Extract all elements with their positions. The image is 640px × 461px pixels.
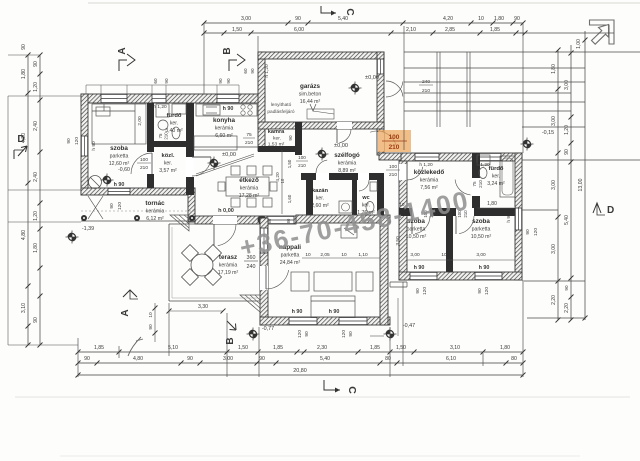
door label szoba1 100/210 <box>137 157 151 171</box>
svg-text:1,50: 1,50 <box>396 345 406 351</box>
svg-text:garázs: garázs <box>300 83 320 90</box>
wall: right wing north <box>401 153 522 161</box>
svg-text:h 1,20: h 1,20 <box>476 162 490 168</box>
wc fixtures <box>366 182 377 213</box>
svg-text:210: 210 <box>298 163 306 168</box>
svg-text:90: 90 <box>164 78 169 84</box>
svg-text:h 90: h 90 <box>329 309 340 315</box>
interior dims wing rooms <box>407 252 515 260</box>
svg-text:5,40: 5,40 <box>338 16 348 22</box>
svg-text:D: D <box>607 205 614 216</box>
wall: right wing east <box>515 153 522 280</box>
wall: konyha west partition <box>186 103 194 195</box>
svg-text:h 90: h 90 <box>114 182 125 188</box>
window W9 nappali south 2 <box>339 317 367 325</box>
window W10 wing east h90 <box>515 208 522 230</box>
svg-text:24,84 m²: 24,84 m² <box>280 260 301 266</box>
svg-text:60: 60 <box>243 68 248 74</box>
door gap to terasz <box>213 216 237 224</box>
label furdo2 <box>487 166 505 187</box>
svg-text:75: 75 <box>158 133 163 138</box>
svg-text:120: 120 <box>117 202 123 210</box>
konyha-etkezo floor edge <box>194 146 259 148</box>
handwritten correction mark near 4,80 <box>128 337 143 356</box>
svg-text:1,20: 1,20 <box>33 82 39 92</box>
furdo1 door label 75/210 <box>158 132 169 140</box>
svg-text:90: 90 <box>226 78 231 84</box>
wall: szelfogo east with front door <box>377 129 384 155</box>
svg-text:1,00: 1,00 <box>576 39 582 49</box>
svg-text:90: 90 <box>21 44 27 50</box>
svg-text:B: B <box>225 337 236 344</box>
svg-text:90: 90 <box>514 16 520 22</box>
svg-text:D: D <box>17 134 24 145</box>
svg-text:±0,00: ±0,00 <box>334 143 348 149</box>
svg-text:fürdő: fürdő <box>489 166 504 172</box>
svg-text:100: 100 <box>389 164 397 170</box>
door garage-szelfogo <box>337 129 351 143</box>
wall: left wing top (konyha/szoba north wall) <box>81 94 265 103</box>
interior dim etkezo 4,20 <box>275 150 292 214</box>
svg-text:2,30: 2,30 <box>317 345 327 351</box>
label kamra <box>268 129 285 148</box>
svg-text:4,80: 4,80 <box>21 230 27 240</box>
svg-text:120: 120 <box>341 330 347 338</box>
door garage side east <box>386 81 403 97</box>
door terasz from etkezo <box>214 224 236 246</box>
wall: kazan/wc divider <box>352 180 357 216</box>
svg-text:C: C <box>346 386 358 394</box>
wing south small step <box>390 282 407 287</box>
label konyha window h <box>223 106 234 112</box>
svg-text:1,85: 1,85 <box>94 345 104 351</box>
level tornac <box>66 226 95 244</box>
svg-text:ker.: ker. <box>273 136 281 142</box>
svg-text:ker.: ker. <box>316 196 324 202</box>
svg-text:kerámia: kerámia <box>420 178 439 184</box>
svg-text:210: 210 <box>389 144 400 151</box>
svg-text:90: 90 <box>415 288 421 294</box>
door kazan <box>316 160 327 173</box>
svg-text:-1,39: -1,39 <box>82 226 94 232</box>
door label szoba3 100/210 rotated <box>457 210 468 218</box>
svg-text:75: 75 <box>472 181 477 187</box>
svg-text:kerámia: kerámia <box>240 186 259 192</box>
svg-text:h 90: h 90 <box>414 265 425 271</box>
wall: kozlekedo/furdo divider <box>472 153 480 216</box>
svg-text:240: 240 <box>247 264 256 270</box>
wall: nappali north (kazan/wc south) <box>296 215 390 223</box>
svg-text:h 90: h 90 <box>506 213 512 223</box>
wall: etkezo south wall with terrace door <box>195 216 296 224</box>
svg-text:3,10: 3,10 <box>450 345 460 351</box>
svg-text:17,19 m²: 17,19 m² <box>218 270 239 276</box>
svg-text:210: 210 <box>389 172 397 178</box>
svg-text:1,20: 1,20 <box>564 125 570 135</box>
level -0,15 right <box>521 130 555 151</box>
svg-text:2,20: 2,20 <box>551 295 557 305</box>
svg-text:60: 60 <box>153 78 158 84</box>
label szelfogo <box>334 152 360 174</box>
terasz step SE triangle <box>240 295 260 312</box>
svg-text:90: 90 <box>304 331 310 337</box>
section marker D right <box>593 203 614 216</box>
svg-text:210: 210 <box>140 165 148 171</box>
label furdo2 dim <box>400 201 514 208</box>
svg-text:6,60 m²: 6,60 m² <box>215 133 233 139</box>
level etkezo <box>208 152 236 170</box>
wall: connector szelfogo to wing <box>379 153 404 160</box>
wall: garage south <box>258 122 384 129</box>
attic ladder symbol <box>307 104 334 119</box>
svg-text:100: 100 <box>140 157 148 163</box>
svg-text:7,56 m²: 7,56 m² <box>420 185 438 191</box>
right side extension lines <box>404 33 640 318</box>
svg-text:3,00: 3,00 <box>223 356 233 362</box>
svg-text:3,50: 3,50 <box>395 236 401 246</box>
svg-text:3,00: 3,00 <box>564 80 570 90</box>
svg-text:90: 90 <box>477 288 483 294</box>
garage west window dims <box>243 68 255 74</box>
svg-text:3,00: 3,00 <box>551 180 557 190</box>
north arrow symbol top right <box>590 20 615 44</box>
svg-text:1,60: 1,60 <box>287 194 292 203</box>
left extension horizontals <box>8 55 81 345</box>
etkezo table and chairs <box>218 166 277 207</box>
svg-text:3,00: 3,00 <box>551 244 557 254</box>
door kozl-etkezo <box>192 157 211 176</box>
section marker A top <box>117 47 135 71</box>
svg-text:1,80: 1,80 <box>500 345 510 351</box>
window W11 szoba1 south <box>410 272 437 280</box>
terasz dim 3,30 <box>167 304 226 314</box>
svg-text:1,85: 1,85 <box>370 345 380 351</box>
window W2 furdo north 60 <box>152 94 166 103</box>
extension verticals top <box>204 23 523 153</box>
left dimension chain outer <box>21 44 31 347</box>
svg-text:szélfogó: szélfogó <box>334 152 360 159</box>
door label garage side 240/210 <box>419 79 433 94</box>
svg-text:120: 120 <box>484 287 490 295</box>
wall: wc east <box>377 180 384 216</box>
wall: nappali west <box>260 218 268 325</box>
bottom extension verticals <box>78 282 523 377</box>
svg-text:90: 90 <box>84 356 90 362</box>
svg-text:90: 90 <box>288 135 293 141</box>
right dimension chain 2 <box>564 45 574 323</box>
svg-text:120: 120 <box>533 228 539 236</box>
svg-text:1,50: 1,50 <box>287 159 292 168</box>
level terasz B <box>247 326 275 341</box>
wall: kamra east / szelfogo west upper <box>295 122 302 155</box>
svg-text:90: 90 <box>259 356 265 362</box>
svg-text:kerámia: kerámia <box>338 161 357 167</box>
svg-text:1,80: 1,80 <box>487 201 497 207</box>
svg-text:3,24 m²: 3,24 m² <box>487 181 505 187</box>
szoba1 cross mark <box>101 174 114 187</box>
label kazan <box>311 188 329 209</box>
bottom dimension chain 3 total 20,80 <box>76 368 526 378</box>
svg-text:1,85: 1,85 <box>490 27 500 33</box>
svg-text:210: 210 <box>245 140 253 146</box>
dim 3,50 between nappali and wing <box>395 236 401 246</box>
wall: tornac east wall <box>188 188 195 222</box>
svg-text:5,40: 5,40 <box>320 356 330 362</box>
door nappali west <box>266 266 289 289</box>
svg-text:tornác: tornác <box>145 200 165 207</box>
bed in szoba1 <box>92 104 146 144</box>
door label szoba2 100/210 rotated <box>423 210 434 218</box>
window W4 west 90/120 <box>81 136 88 156</box>
label kozl <box>159 153 177 174</box>
svg-text:90: 90 <box>33 61 39 67</box>
svg-text:h 90: h 90 <box>91 141 97 151</box>
svg-text:1,20: 1,20 <box>33 211 39 221</box>
svg-text:75: 75 <box>246 132 252 138</box>
door szoba1 <box>131 153 152 174</box>
window W3 konyha north <box>217 94 239 103</box>
svg-text:lenyitható: lenyitható <box>271 102 292 108</box>
nappali sofa set <box>291 272 373 317</box>
wall: left outer west wall <box>81 94 88 195</box>
label tornac <box>145 200 165 222</box>
wall: kamra south <box>258 146 302 152</box>
svg-text:1,80: 1,80 <box>33 243 39 253</box>
svg-text:fürdő: fürdő <box>167 113 182 119</box>
svg-text:6,00: 6,00 <box>294 27 304 33</box>
svg-text:210: 210 <box>478 180 483 188</box>
door label furdo2 75/210 rotated <box>472 180 483 188</box>
window W13 wing north 1 <box>415 153 439 161</box>
faint scan smudges bottom <box>15 397 630 456</box>
window W5 south of szoba <box>108 188 130 195</box>
section marker B top <box>222 47 245 71</box>
page top scan line <box>88 2 640 4</box>
label garage hatch note <box>267 102 295 115</box>
door furdo wing <box>455 180 470 195</box>
svg-text:közlekedő: közlekedő <box>414 169 445 176</box>
svg-text:120: 120 <box>74 137 80 145</box>
svg-text:210: 210 <box>164 132 169 140</box>
svg-text:90: 90 <box>564 285 569 291</box>
wall: garage east <box>377 52 384 129</box>
kazan boiler <box>339 201 352 213</box>
svg-text:10,50 m²: 10,50 m² <box>471 234 492 240</box>
svg-text:kerámia: kerámia <box>215 126 234 132</box>
level szelfogo <box>316 143 348 161</box>
svg-text:kerámia: kerámia <box>219 263 238 269</box>
svg-text:h 90: h 90 <box>479 265 490 271</box>
level garage <box>349 75 379 95</box>
svg-text:2,40: 2,40 <box>33 121 39 131</box>
svg-text:2,20: 2,20 <box>564 303 570 313</box>
window W14 wing north 2 <box>478 153 501 161</box>
wall: right wing south <box>399 272 522 280</box>
window W7 sill labels <box>267 218 291 223</box>
szoba1 vertical labels <box>91 116 143 151</box>
svg-text:1,53 m²: 1,53 m² <box>268 142 285 148</box>
window W8 nappali south 1 <box>289 317 317 325</box>
svg-text:h 0,00: h 0,00 <box>218 208 234 214</box>
orange highlight front door 100/210 <box>378 130 411 152</box>
svg-text:kazán: kazán <box>312 188 329 194</box>
svg-text:3,00: 3,00 <box>241 16 251 22</box>
svg-text:90: 90 <box>187 356 193 362</box>
etkezo diagonal attic stair line <box>196 154 254 176</box>
wall: kazan-wc north <box>301 173 384 180</box>
wall: szoba east partition (bedroom1 left wing) <box>147 103 154 188</box>
svg-text:2,05: 2,05 <box>320 252 330 258</box>
right dimension chain 3 total <box>576 31 588 321</box>
terasz table and chairs <box>182 245 222 286</box>
svg-text:100: 100 <box>389 134 400 141</box>
svg-text:kamra: kamra <box>268 129 285 135</box>
nappali tv cabinet <box>341 225 357 238</box>
svg-text:h 1,20: h 1,20 <box>419 162 433 168</box>
svg-text:padlásfeljáró: padlásfeljáró <box>267 109 295 115</box>
svg-text:±0,00: ±0,00 <box>365 75 379 81</box>
wall: nappali east <box>380 215 388 325</box>
wall: kazan west <box>306 173 313 223</box>
svg-text:90: 90 <box>218 78 223 84</box>
svg-text:90: 90 <box>148 324 154 330</box>
svg-text:20,80: 20,80 <box>293 368 307 374</box>
window W7 etkezo south 300/240 <box>267 216 294 224</box>
label garazs <box>299 83 322 105</box>
svg-text:2,60 m²: 2,60 m² <box>311 203 329 209</box>
svg-text:4,80: 4,80 <box>133 356 143 362</box>
svg-text:90: 90 <box>348 331 354 337</box>
svg-text:90: 90 <box>250 68 255 74</box>
svg-text:1,50: 1,50 <box>238 345 248 351</box>
svg-text:80: 80 <box>511 356 517 362</box>
label konyha <box>213 117 236 139</box>
label szoba3 <box>471 218 492 240</box>
right dimension chain 1 <box>551 48 561 323</box>
svg-text:8,89 m²: 8,89 m² <box>338 168 356 174</box>
h labels windows <box>153 64 512 315</box>
svg-text:10: 10 <box>280 178 285 183</box>
svg-text:120: 120 <box>297 330 303 338</box>
door gap garage-szelfogo <box>337 122 352 129</box>
svg-text:90: 90 <box>564 149 570 155</box>
door label kamra 75/210 <box>243 132 255 146</box>
interior dims nappali <box>302 252 380 258</box>
watermark phone number <box>237 185 472 263</box>
wall: left wing south wall (tornac north) <box>81 188 195 195</box>
svg-text:3,30: 3,30 <box>198 304 208 310</box>
left dimension chain inner <box>33 53 43 348</box>
svg-text:5,40: 5,40 <box>564 215 570 225</box>
section marker C top <box>321 6 355 16</box>
svg-text:h 1,20: h 1,20 <box>264 64 270 78</box>
wall: garage west + kamra west <box>258 52 265 151</box>
window W1 szoba north 1,20 <box>101 94 127 103</box>
szoba1 corner plant <box>89 176 102 189</box>
svg-text:90: 90 <box>525 229 531 235</box>
svg-text:C: C <box>344 8 355 15</box>
door gap nappali west <box>260 266 268 290</box>
svg-text:-0,60: -0,60 <box>118 167 130 173</box>
svg-text:szoba: szoba <box>472 218 490 225</box>
svg-text:ker.: ker. <box>164 161 172 167</box>
svg-text:100: 100 <box>298 155 306 160</box>
door label kazan 100/210 <box>288 135 308 168</box>
tornac dashed edge + columns <box>81 211 196 221</box>
svg-text:parketta: parketta <box>472 227 491 233</box>
section marker C bottom <box>324 380 358 394</box>
svg-text:h 90: h 90 <box>223 106 234 112</box>
label terasz 360/240 <box>244 255 258 270</box>
bottom dimension chain 1 <box>76 345 526 355</box>
svg-text:szoba: szoba <box>110 145 128 152</box>
terasz side dim 10/90 <box>153 303 158 342</box>
svg-text:3,00: 3,00 <box>551 116 557 126</box>
svg-text:3,10: 3,10 <box>21 303 27 313</box>
svg-text:90: 90 <box>33 317 39 323</box>
window W6 garage east <box>377 59 384 74</box>
svg-text:13,00: 13,00 <box>578 178 584 191</box>
svg-text:1,85: 1,85 <box>273 345 283 351</box>
svg-text:ker.: ker. <box>492 174 500 180</box>
svg-text:2,40: 2,40 <box>33 172 39 182</box>
section marker B bottom <box>225 321 236 345</box>
furdo1 fixtures <box>156 104 186 139</box>
svg-text:A: A <box>117 47 128 54</box>
tornac ramp cross lines <box>88 196 103 219</box>
tornac step triangle <box>170 215 189 231</box>
svg-text:6,12 m²: 6,12 m² <box>146 216 164 222</box>
svg-text:17,28 m²: 17,28 m² <box>239 193 260 199</box>
label szoba1 <box>109 145 130 167</box>
svg-text:10: 10 <box>441 252 447 258</box>
door label wing 100/210 <box>386 164 400 178</box>
svg-text:terasz: terasz <box>219 254 237 261</box>
svg-text:1,80: 1,80 <box>21 69 27 79</box>
svg-text:90: 90 <box>109 203 115 209</box>
svg-text:közl.: közl. <box>162 153 175 159</box>
wall: garage north <box>258 52 384 59</box>
svg-text:4,20: 4,20 <box>443 16 453 22</box>
svg-text:kerámia: kerámia <box>146 209 165 215</box>
window sill labels 90/120 pairs <box>66 137 539 338</box>
window nappali west <box>260 228 268 253</box>
label terasz <box>218 254 239 276</box>
svg-text:10: 10 <box>148 312 154 318</box>
svg-text:10: 10 <box>341 252 347 258</box>
furdo2 fixtures: tub sink toilet <box>477 155 515 197</box>
label szoba1 extra <box>114 167 130 188</box>
window dim line above top wall <box>86 78 239 94</box>
label kozlekedo <box>414 169 445 191</box>
svg-text:ker.: ker. <box>170 121 178 127</box>
label szoba2 <box>406 218 427 240</box>
svg-text:sim.beton: sim.beton <box>299 92 322 98</box>
svg-text:90: 90 <box>295 16 301 22</box>
svg-text:10: 10 <box>478 16 484 22</box>
svg-text:h 1,20: h 1,20 <box>153 104 167 110</box>
gate post lines right of garage <box>437 52 470 127</box>
label wc <box>357 195 375 216</box>
front door szelfogo <box>370 131 396 151</box>
svg-text:-0,15: -0,15 <box>542 130 554 136</box>
svg-text:A: A <box>120 309 131 316</box>
svg-text:3,57 m²: 3,57 m² <box>159 168 177 174</box>
window W12 szoba2 south <box>475 272 502 280</box>
svg-text:1,10: 1,10 <box>358 252 368 258</box>
section marker D left <box>14 134 27 159</box>
svg-text:5,10: 5,10 <box>168 345 178 351</box>
